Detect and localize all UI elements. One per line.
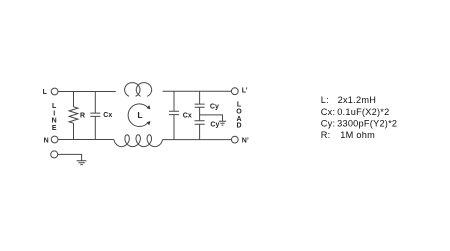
svg-text:Cx: Cx [103, 112, 112, 119]
svg-text:E: E [52, 125, 57, 132]
svg-text:Cy:: Cy: [321, 118, 336, 128]
svg-text:L’: L’ [242, 88, 248, 95]
svg-text:N’: N’ [242, 138, 249, 145]
svg-text:R:: R: [321, 130, 331, 140]
svg-text:Cx:: Cx: [321, 107, 336, 117]
svg-text:R: R [80, 112, 85, 119]
svg-text:Cx: Cx [183, 112, 192, 119]
svg-text:3300pF(Y2)*2: 3300pF(Y2)*2 [337, 118, 397, 128]
svg-text:2x1.2mH: 2x1.2mH [338, 95, 377, 105]
svg-text:1M ohm: 1M ohm [340, 130, 375, 140]
svg-text:D: D [236, 122, 241, 129]
svg-text:Cy: Cy [210, 103, 219, 110]
svg-text:L: L [43, 89, 48, 96]
svg-text:I: I [53, 110, 55, 117]
svg-text:L:: L: [321, 95, 329, 105]
svg-text:L: L [237, 101, 242, 108]
svg-text:Cy: Cy [210, 121, 219, 128]
svg-text:L: L [137, 110, 142, 120]
svg-text:0.1uF(X2)*2: 0.1uF(X2)*2 [337, 107, 389, 117]
svg-text:N: N [44, 137, 49, 144]
svg-text:O: O [236, 108, 242, 115]
svg-text:N: N [52, 118, 57, 125]
svg-text:L: L [52, 103, 57, 110]
